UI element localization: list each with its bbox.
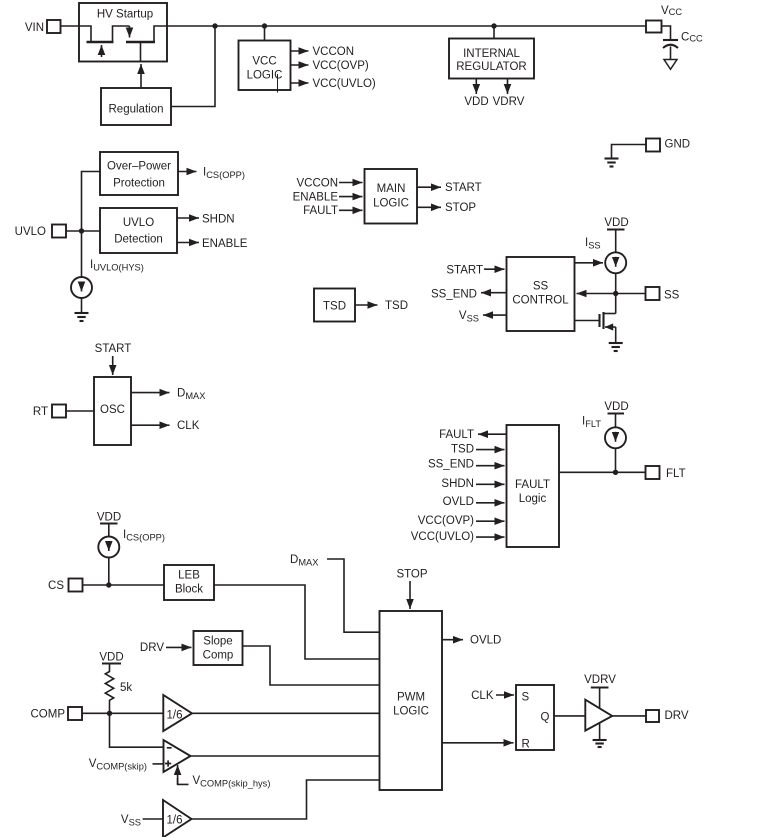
svg-text:UVLO: UVLO xyxy=(15,226,46,238)
svg-text:ENABLE: ENABLE xyxy=(202,238,248,250)
svg-text:FAULT: FAULT xyxy=(303,205,338,217)
svg-text:FLT: FLT xyxy=(666,468,686,480)
svg-text:VCC(OVP): VCC(OVP) xyxy=(313,60,369,72)
svg-text:OVLD: OVLD xyxy=(470,635,501,647)
svg-text:Comp: Comp xyxy=(203,650,234,662)
svg-text:Slope: Slope xyxy=(203,636,232,648)
svg-text:TSD: TSD xyxy=(323,301,346,313)
svg-text:DRV: DRV xyxy=(665,710,689,722)
svg-text:VCC: VCC xyxy=(661,5,682,17)
svg-text:VDD: VDD xyxy=(464,96,488,108)
svg-text:Logic: Logic xyxy=(519,493,547,505)
svg-text:CLK: CLK xyxy=(177,420,200,432)
svg-text:SHDN: SHDN xyxy=(441,478,474,490)
svg-text:CCC: CCC xyxy=(681,32,703,44)
svg-text:MAIN: MAIN xyxy=(377,183,406,195)
svg-text:INTERNAL: INTERNAL xyxy=(463,48,520,60)
svg-text:VCC(UVLO): VCC(UVLO) xyxy=(411,531,474,543)
svg-text:ENABLE: ENABLE xyxy=(293,192,339,204)
svg-text:STOP: STOP xyxy=(396,569,427,581)
svg-text:TSD: TSD xyxy=(385,300,408,312)
svg-text:1/6: 1/6 xyxy=(167,709,183,721)
svg-text:VCOMP(skip_hys): VCOMP(skip_hys) xyxy=(193,775,271,789)
svg-text:FAULT: FAULT xyxy=(439,429,474,441)
svg-text:ICS(OPP): ICS(OPP) xyxy=(203,167,245,181)
svg-text:LEB: LEB xyxy=(178,570,200,582)
svg-text:IFLT: IFLT xyxy=(582,416,601,430)
svg-text:HV Startup: HV Startup xyxy=(97,9,153,21)
svg-text:DRV: DRV xyxy=(140,642,164,654)
svg-text:DMAX: DMAX xyxy=(177,388,205,402)
svg-text:S: S xyxy=(522,692,530,704)
svg-text:SHDN: SHDN xyxy=(202,213,235,225)
svg-text:Regulation: Regulation xyxy=(109,104,164,116)
svg-text:SS_END: SS_END xyxy=(431,289,477,301)
svg-text:START: START xyxy=(95,343,132,355)
svg-text:START: START xyxy=(445,182,482,194)
svg-text:TSD: TSD xyxy=(451,443,474,455)
svg-text:GND: GND xyxy=(665,139,691,151)
svg-text:ISS: ISS xyxy=(585,237,601,251)
svg-text:VCCON: VCCON xyxy=(313,46,355,58)
svg-text:SS_END: SS_END xyxy=(428,459,474,471)
svg-text:OSC: OSC xyxy=(100,404,125,416)
svg-text:STOP: STOP xyxy=(445,202,476,214)
svg-text:DMAX: DMAX xyxy=(290,554,318,568)
svg-text:START: START xyxy=(446,265,483,277)
svg-text:VDRV: VDRV xyxy=(493,96,525,108)
svg-text:1/6: 1/6 xyxy=(167,815,183,827)
svg-text:ICS(OPP): ICS(OPP) xyxy=(123,529,165,543)
svg-text:Over–Power: Over–Power xyxy=(107,161,171,173)
svg-text:VDD: VDD xyxy=(604,401,628,413)
svg-text:OVLD: OVLD xyxy=(443,496,474,508)
svg-text:VSS: VSS xyxy=(459,310,479,324)
svg-text:SS: SS xyxy=(664,290,680,302)
svg-text:Block: Block xyxy=(175,584,203,596)
svg-text:VDD: VDD xyxy=(99,652,123,664)
svg-text:SS: SS xyxy=(533,281,549,293)
svg-text:REGULATOR: REGULATOR xyxy=(456,61,527,73)
svg-text:VCC: VCC xyxy=(252,56,276,68)
svg-text:CLK: CLK xyxy=(471,690,494,702)
svg-text:FAULT: FAULT xyxy=(515,479,550,491)
svg-text:VDRV: VDRV xyxy=(584,674,616,686)
svg-text:LOGIC: LOGIC xyxy=(393,706,429,718)
svg-text:VDD: VDD xyxy=(97,512,121,524)
svg-text:VCC(UVLO): VCC(UVLO) xyxy=(313,78,376,90)
svg-text:COMP: COMP xyxy=(31,708,66,720)
svg-text:VSS: VSS xyxy=(121,814,141,828)
svg-text:LOGIC: LOGIC xyxy=(373,198,409,210)
svg-text:Q: Q xyxy=(541,712,550,724)
svg-text:VDD: VDD xyxy=(604,217,628,229)
svg-text:VCC(OVP): VCC(OVP) xyxy=(418,515,474,527)
svg-text:CS: CS xyxy=(48,580,64,592)
svg-text:UVLO: UVLO xyxy=(123,217,154,229)
svg-text:Protection: Protection xyxy=(113,178,165,190)
svg-text:CONTROL: CONTROL xyxy=(512,295,569,307)
svg-text:Detection: Detection xyxy=(114,234,163,246)
svg-text:VCCON: VCCON xyxy=(296,178,338,190)
svg-text:VIN: VIN xyxy=(25,22,44,34)
svg-text:RT: RT xyxy=(33,406,48,418)
svg-text:R: R xyxy=(522,739,530,751)
svg-text:VCOMP(skip): VCOMP(skip) xyxy=(89,758,147,772)
svg-text:PWM: PWM xyxy=(397,692,425,704)
svg-text:IUVLO(HYS): IUVLO(HYS) xyxy=(90,259,144,273)
svg-text:5k: 5k xyxy=(120,682,132,694)
